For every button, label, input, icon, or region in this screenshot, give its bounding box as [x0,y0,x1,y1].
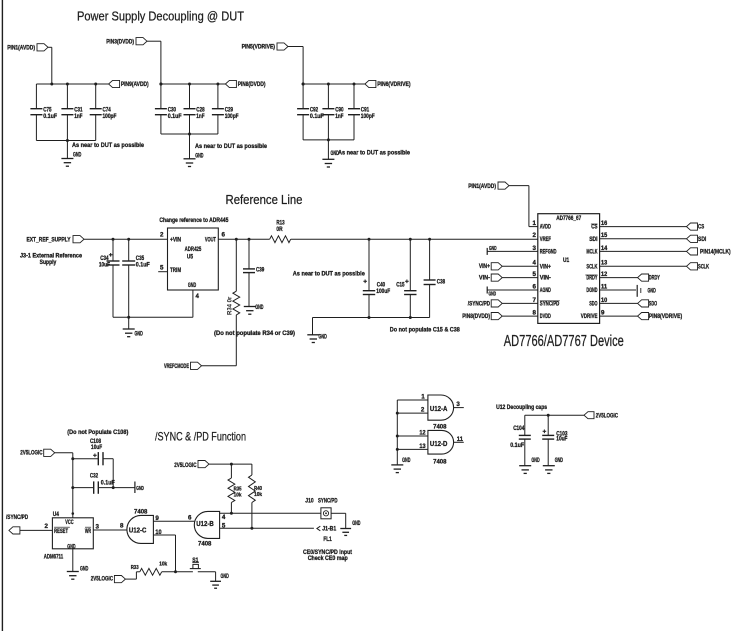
wire to U1 pin 1 [529,186,538,227]
svg-text:VIN-: VIN- [479,275,490,282]
capacitor C30 [155,83,182,135]
svg-text:100pF: 100pF [225,113,239,120]
capacitor C92 [297,83,324,140]
pin 16 of U1 (CS) [591,220,608,231]
wire decoupling bus [525,414,584,417]
connector DRDY [600,274,661,282]
svg-text:ADM6711: ADM6711 [44,553,64,560]
connector PIN8(VDRIVE) [600,313,683,321]
svg-text:AD7766/AD7767 Device: AD7766/AD7767 Device [504,333,624,350]
pin 1 of U12-A [397,394,428,401]
ground [184,134,204,167]
svg-text:U12-C: U12-C [129,527,147,534]
pin 5 of U1 (VIN-) [533,271,551,282]
pin 4 of U5 [193,290,200,317]
svg-text:SDO: SDO [589,300,597,307]
svg-text:R33: R33 [131,565,139,571]
note FL1 [323,536,332,543]
svg-text:GND: GND [531,457,540,464]
svg-text:2V5LOGIC: 2V5LOGIC [174,462,197,469]
capacitor C34 [99,238,120,318]
svg-text:RESET: RESET [54,528,68,535]
pin 15 of U1 (SDI) [589,232,607,243]
wire C108 to C32 output [112,459,115,489]
pin 14 of U1 (MCLK) [586,245,607,256]
svg-text:0.1uF: 0.1uF [43,113,57,120]
wire U4 WR to U12-C pin 8 [93,523,127,531]
pin 9 of U1 (VDRIVE) [581,310,605,321]
svg-text:/SYNC & /PD Function: /SYNC & /PD Function [155,430,246,444]
svg-text:J10: J10 [305,498,314,505]
ground (U4) [67,549,89,579]
svg-text:SYNC/PD: SYNC/PD [318,498,338,505]
svg-text:10k: 10k [159,562,168,568]
capacitor C35 [122,238,150,318]
wire from PIN5(VDRIVE) to bus [302,47,305,86]
connector J10 SYNC/PD [305,498,338,519]
connector /SYNC/PD [6,514,52,534]
note J3-1 External Reference Supply [20,252,82,266]
connector J1-B1 [317,525,337,532]
svg-text:1nF: 1nF [335,113,343,120]
svg-text:0.1uF: 0.1uF [136,262,150,269]
svg-text:13: 13 [419,443,426,450]
gate U12-B 7408 [194,511,219,547]
connector PIN14(MCLK) [600,248,731,256]
svg-text:3: 3 [533,245,537,252]
wire U12-C pin 10 [153,529,175,572]
svg-text:GND: GND [195,152,204,159]
svg-text:PIN5(VDRIVE): PIN5(VDRIVE) [242,44,275,51]
svg-text:/SYNC/PD: /SYNC/PD [6,514,29,521]
pin 12 of U1 (DRDY) [585,271,607,282]
resistor R34 [228,238,240,366]
svg-text:VDRIVE: VDRIVE [581,313,598,320]
capacitor C31 [61,83,83,141]
connector SDO [600,300,658,308]
svg-text:C38: C38 [437,278,446,285]
svg-text:+VIN: +VIN [170,237,182,244]
svg-text:As near to DUT as possible: As near to DUT as possible [338,150,410,157]
note As near to DUT as possible [338,150,410,157]
ground (DGND) [600,285,657,297]
svg-text:6: 6 [533,283,537,290]
svg-text:GND: GND [648,288,657,295]
svg-text:GND: GND [489,246,497,252]
svg-text:EXT_REF_SUPPLY: EXT_REF_SUPPLY [27,236,72,243]
ground [543,440,564,473]
connector SCLK [600,263,710,271]
ground [135,482,144,494]
svg-text:2: 2 [160,231,164,238]
svg-text:SDI: SDI [589,236,598,243]
svg-text:7408: 7408 [433,424,447,431]
capacitor C74 [90,83,117,141]
wire U12-B pin 6 to U12-C pin 9 [153,515,194,522]
svg-text:SDO: SDO [649,301,657,308]
svg-text:GND: GND [73,152,82,159]
wire reference line to U1 pin 2 [291,238,538,240]
wire top bus [36,83,108,85]
svg-text:GND: GND [489,292,497,298]
connector PIN1(AVDD) [468,182,529,190]
svg-text:PIN8(DVDD): PIN8(DVDD) [238,81,266,88]
svg-text:SCLK: SCLK [698,263,709,270]
svg-text:GND: GND [135,331,144,338]
connector SDI [600,235,707,243]
connector PIN9(AVDD) [109,80,149,88]
note (Do not Populate C108) [67,429,128,436]
pin 3 of U1 (REFGND) [533,245,557,256]
svg-text:GND: GND [319,334,328,341]
svg-text:C32: C32 [90,473,99,480]
svg-text:10k: 10k [254,492,263,498]
svg-text:U4: U4 [53,511,60,518]
svg-text:10k: 10k [234,492,243,498]
svg-text:5: 5 [222,522,226,529]
svg-text:2: 2 [421,407,425,414]
svg-text:7408: 7408 [433,458,447,465]
ground [322,140,339,167]
capacitor C103 [542,415,568,443]
svg-text:GND: GND [221,573,230,580]
svg-text:PIN3(DVDD): PIN3(DVDD) [106,38,134,45]
svg-text:2: 2 [533,232,537,239]
svg-text:VREFCMODE: VREFCMODE [164,363,189,370]
capacitor C29 [212,83,239,135]
svg-text:7408: 7408 [198,541,212,548]
capacitor C91 [348,83,375,140]
svg-text:AD7766_67: AD7766_67 [556,215,581,222]
resistor R35 [228,464,242,515]
svg-text:9: 9 [601,310,605,317]
connector PIN3(DVDD) [106,38,161,46]
ground [123,317,143,337]
connector CS [600,223,705,231]
svg-text:8: 8 [533,310,537,317]
svg-text:GND: GND [80,566,89,573]
svg-text:R34 0r: R34 0r [228,296,234,315]
note CE0/SYNC/PD Input / Check CE0 map [303,549,352,562]
wire bottom bus [36,139,95,142]
svg-text:C104: C104 [513,425,525,432]
svg-text:VIN+: VIN+ [479,263,490,270]
gate U12-A 7408 [428,395,454,431]
svg-text:Change reference to ADR445: Change reference to ADR445 [159,217,228,224]
capacitor C32 [73,473,135,494]
svg-text:0.1uF: 0.1uF [510,442,524,449]
svg-text:4: 4 [222,514,226,521]
pin 4 of U1 (VIN+) [533,260,552,271]
svg-text:6: 6 [222,231,226,238]
svg-text:U1: U1 [563,257,570,264]
note As near to DUT as possible [72,142,144,149]
svg-text:GND: GND [188,282,197,289]
svg-text:(Do not populate R34 or C39): (Do not populate R34 or C39) [214,330,295,337]
svg-text:PIN9(AVDD): PIN9(AVDD) [121,81,149,88]
svg-text:14: 14 [601,245,608,252]
svg-text:VOUT: VOUT [205,237,216,244]
pin 3 of U12-A [454,401,464,408]
svg-text:10: 10 [155,529,162,536]
svg-text:GND: GND [555,457,564,464]
svg-text:10uF: 10uF [91,444,102,451]
note As near to DUT as possible [293,270,365,277]
connector 2V5LOGIC [174,461,252,469]
gate U12-C 7408 [127,508,154,543]
svg-text:AGND: AGND [540,287,551,294]
wire top bus [161,83,226,85]
switch S1 [190,557,216,581]
svg-text:0R: 0R [276,226,283,233]
svg-text:100uF: 100uF [376,288,390,295]
wire from PIN3(DVDD) to bus [159,41,162,85]
svg-text:Power Supply Decoupling @ DUT: Power Supply Decoupling @ DUT [77,9,244,23]
pin 2 of U5 [160,231,164,238]
ground [391,457,410,472]
svg-text:U12-A: U12-A [430,406,448,413]
pin 6 of U1 (AGND) [533,283,552,294]
ground [340,520,361,535]
svg-text:2: 2 [45,523,49,530]
pin 13 of U1 (SCLK) [586,260,607,271]
svg-text:DRDY: DRDY [649,275,661,282]
pin 7 of U1 (SYNC/PD) [533,297,560,308]
svg-text:4: 4 [533,260,537,267]
svg-text:12: 12 [601,271,608,278]
svg-text:100pF: 100pF [103,113,117,120]
connector PIN8(DVDD) [462,313,538,321]
svg-text:CS: CS [698,224,704,231]
resistor R13 [236,219,290,242]
regulator U5 ADR425 [168,228,219,290]
svg-text:TRIM: TRIM [170,267,181,274]
note Do not populate C15 & C38 [390,327,460,334]
svg-text:3: 3 [96,523,100,530]
svg-text:WR: WR [85,528,92,535]
svg-text:3: 3 [456,401,460,408]
note Change reference to ADR445 [159,217,228,224]
svg-text:2V5LOGIC: 2V5LOGIC [20,450,43,457]
svg-text:1nF: 1nF [196,113,204,120]
svg-text:+: + [109,252,113,259]
wire gate inputs trunk [396,400,398,465]
wire J10 to ground [331,513,346,528]
wire bottom bus [161,133,218,136]
IC U4 ADM6711 [44,511,94,561]
capacitor C75 [30,84,57,141]
svg-text:J1-B1: J1-B1 [322,525,336,532]
svg-text:+: + [405,279,409,286]
connector EXT_REF_SUPPLY [27,236,168,244]
svg-text:DVDD: DVDD [540,313,551,320]
svg-text:2V5LOGIC: 2V5LOGIC [596,412,619,419]
svg-text:1nF: 1nF [74,113,82,120]
wire bottom bus near U1 [313,316,430,319]
svg-text:Reference Line: Reference Line [226,192,303,207]
connector /SYNC/PD to U1 [468,300,538,308]
pin 12 of U12-D [396,430,428,438]
svg-text:10: 10 [601,297,608,304]
svg-text:PIN8(DVDD): PIN8(DVDD) [462,313,490,320]
svg-text:0.1uF: 0.1uF [168,113,182,120]
svg-text:5: 5 [160,265,164,272]
svg-text:Do not populate C15 & C38: Do not populate C15 & C38 [390,327,460,334]
svg-text:DGND: DGND [586,287,597,294]
svg-text:SYNC/PD: SYNC/PD [540,300,560,307]
capacitor C15 [396,238,416,318]
wire VCC trunk [71,453,74,518]
svg-text:U5: U5 [187,253,194,260]
title Reference Line [226,192,303,207]
capacitor C104 [510,415,531,449]
svg-text:(Do not Populate C108): (Do not Populate C108) [67,429,128,436]
svg-text:U12-D: U12-D [430,441,448,448]
svg-text:PIN6(VDRIVE): PIN6(VDRIVE) [377,81,410,88]
svg-text:U12 Decoupling caps: U12 Decoupling caps [496,404,547,411]
pin 8 of U1 (DVDD) [533,310,552,321]
svg-text:MCLK: MCLK [586,248,597,255]
svg-text:GND: GND [255,304,264,311]
note U12 Decoupling caps [496,404,547,411]
svg-text:10uF: 10uF [556,436,567,443]
svg-text:5: 5 [533,271,537,278]
svg-text:9: 9 [155,515,159,522]
title AD7766/AD7767 Device [504,333,624,350]
ground [307,318,327,343]
svg-text:/SYNC/PD: /SYNC/PD [468,300,491,307]
svg-text:16: 16 [601,220,608,227]
pin 1 of U1 (AVDD) [533,220,552,231]
wire bottom bus [303,138,354,141]
svg-text:12: 12 [419,430,426,437]
svg-text:11: 11 [601,283,608,290]
wire U12-B pin 5 to J1-B1 [220,522,314,529]
note (Do not populate R34 or C39) [214,330,295,337]
capacitor C108 [73,438,113,466]
connector PIN5(VDRIVE) [242,43,304,51]
svg-text:+: + [93,453,97,460]
pin 10 of U1 (SDO) [589,297,607,308]
svg-text:GND: GND [67,543,76,550]
ground (REFGND) [487,246,538,255]
svg-text:As near to DUT as possible: As near to DUT as possible [293,270,365,277]
ground [519,440,540,473]
capacitor C28 [184,83,206,135]
gate U12-D 7408 [428,430,454,465]
svg-text:REFGND: REFGND [540,248,557,255]
svg-text:VCC: VCC [65,519,74,526]
capacitor C40 [363,238,391,318]
svg-text:VREF: VREF [540,236,551,243]
title Power Supply Decoupling @ DUT [77,9,244,23]
svg-text:GND: GND [136,486,144,492]
svg-text:PIN1(AVDD): PIN1(AVDD) [468,183,496,190]
svg-text:13: 13 [601,260,608,267]
svg-text:GND: GND [402,457,411,464]
pin 5 of U5 [158,265,167,272]
pin 13 of U12-D [396,443,428,451]
resistor R40 [249,464,263,530]
svg-text:11: 11 [457,436,464,443]
ground (AGND) [487,287,538,298]
pin 2 of U12-A [396,407,428,415]
svg-text:As near to DUT as possible: As near to DUT as possible [195,143,267,150]
wire bottom bus of reference input [113,316,193,319]
connector 2V5LOGIC [20,449,73,457]
svg-text:+: + [543,429,547,436]
svg-text:PIN8(VDRIVE): PIN8(VDRIVE) [649,313,682,320]
wire from PIN1(AVDD) to bus [50,47,53,85]
svg-text:VIN+: VIN+ [540,263,551,270]
svg-text:AVDD: AVDD [540,224,551,231]
connector 2V5LOGIC [91,572,137,583]
svg-text:Check CE0 map: Check CE0 map [308,555,348,562]
connector VIN+ [479,263,538,271]
capacitor C90 [322,83,344,140]
svg-text:VIN-: VIN- [540,275,551,282]
connector VREFCMODE [164,362,236,370]
svg-text:GND: GND [352,520,361,527]
connector 2V5LOGIC [584,412,618,420]
ground [210,573,229,588]
svg-text:SDI: SDI [698,236,707,243]
svg-text:+: + [363,279,367,286]
pin 11 of U12-D [454,436,464,443]
svg-text:SCLK: SCLK [586,263,597,270]
svg-text:FL1: FL1 [323,536,332,543]
svg-text:8: 8 [120,523,124,530]
svg-text:C15: C15 [396,282,405,289]
pin 2 of U1 (VREF) [533,232,551,243]
svg-text:10uF: 10uF [99,262,110,269]
svg-text:1: 1 [533,220,537,227]
svg-text:ADR425: ADR425 [185,246,202,253]
svg-text:2V5LOGIC: 2V5LOGIC [91,576,114,583]
svg-text:0.1uF: 0.1uF [310,113,324,120]
svg-text:1: 1 [421,394,425,401]
capacitor C38 [424,238,446,318]
svg-text:6: 6 [188,515,192,522]
svg-text:0.1uF: 0.1uF [101,480,115,487]
svg-text:7408: 7408 [134,508,148,515]
wire top bus [303,83,365,85]
svg-text:100pF: 100pF [361,113,375,120]
svg-text:C39: C39 [256,267,265,274]
svg-text:As near to DUT as possible: As near to DUT as possible [72,142,144,149]
IC U1 AD7766_67 [538,214,600,324]
note As near to DUT as possible [195,143,267,150]
connector VIN- [479,274,538,282]
svg-text:15: 15 [601,232,608,239]
pin 6 of U5 [218,231,236,239]
capacitor C39 [243,238,265,274]
svg-text:PIN1(AVDD): PIN1(AVDD) [7,45,35,52]
ground [61,141,81,167]
resistor R33 [131,562,193,576]
connector PIN1(AVDD) [7,44,52,52]
connector PIN6(VDRIVE) [365,80,411,88]
svg-text:U12-B: U12-B [196,521,214,528]
wire U12-B pin 4 to J10 [220,513,321,521]
svg-text:CS: CS [591,224,597,231]
svg-text:7: 7 [533,297,537,304]
ground [244,274,264,314]
connector PIN8(DVDD) [225,80,265,88]
svg-text:4: 4 [196,293,200,300]
svg-text:PIN14(MCLK): PIN14(MCLK) [700,249,731,256]
pin 11 of U1 (DGND) [586,283,607,294]
